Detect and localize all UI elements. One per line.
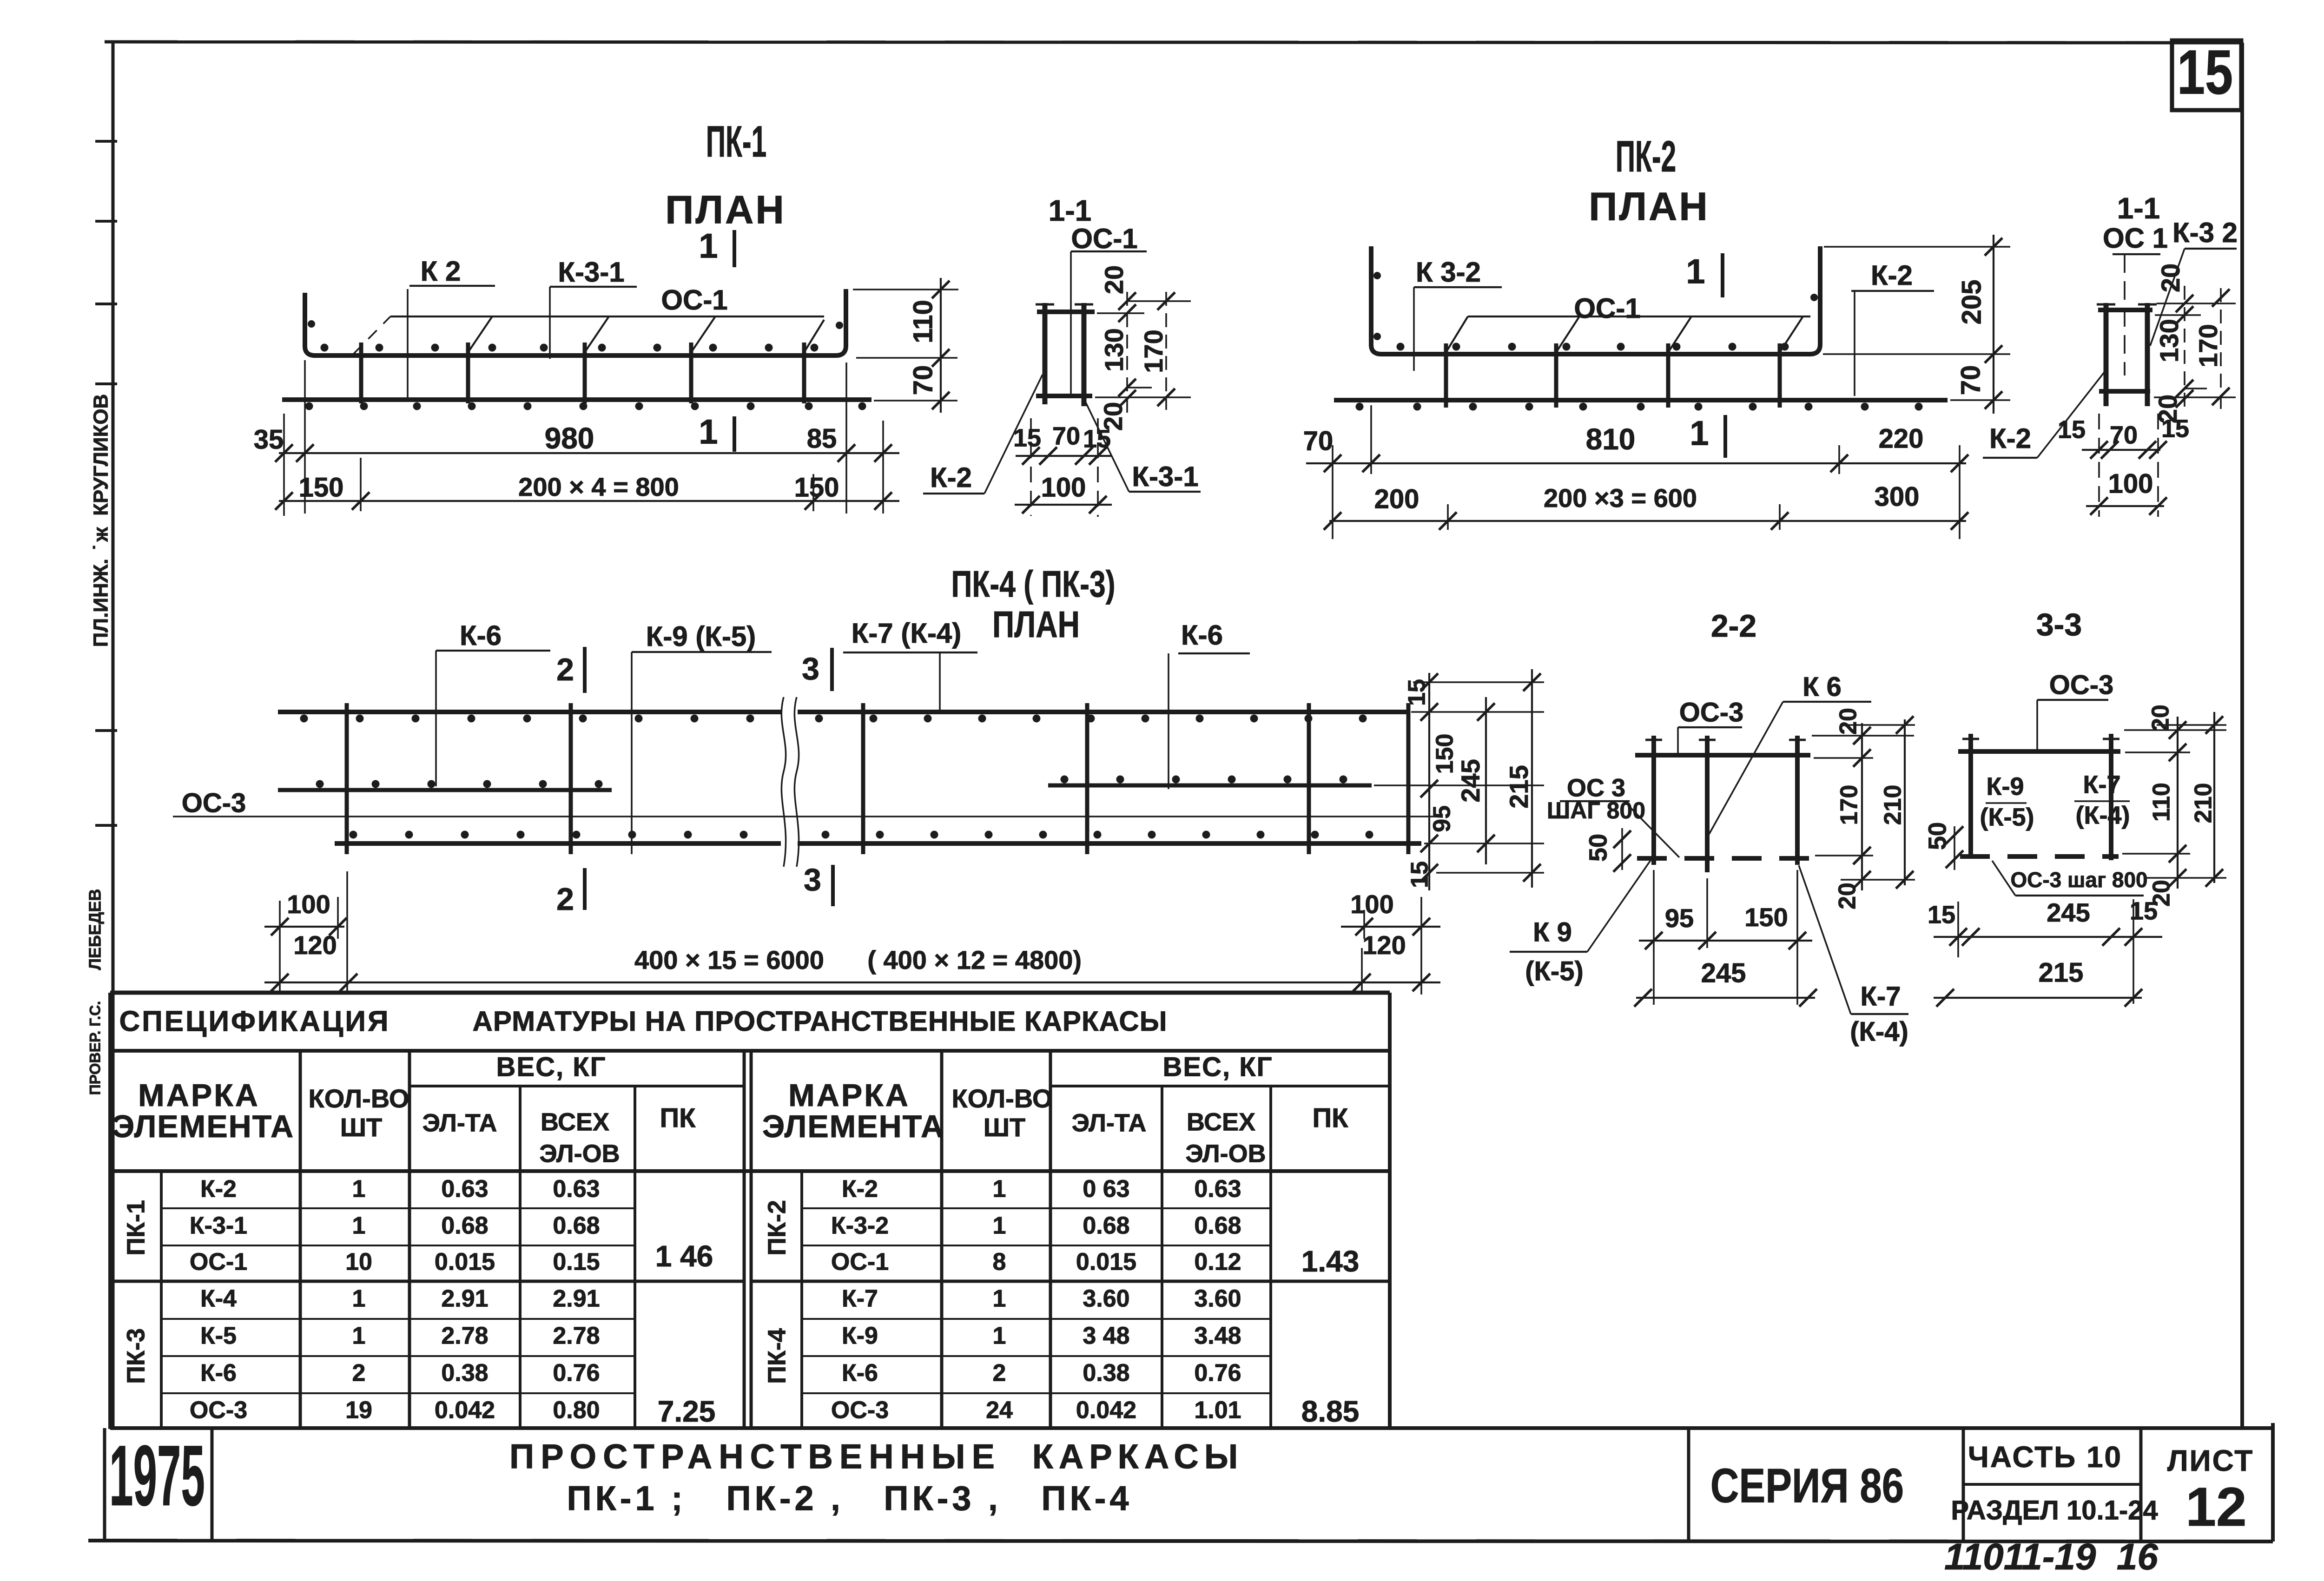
dimension 120 and overall 400x15=6000 line (PK-4 bottom) <box>264 930 1440 991</box>
dimension chain 20/110/20 (section 3-3) <box>2147 705 2186 907</box>
svg-text:150: 150 <box>1744 902 1788 932</box>
svg-text:0.80: 0.80 <box>553 1397 600 1424</box>
svg-text:3: 3 <box>802 651 819 686</box>
svg-text:810: 810 <box>1586 422 1636 456</box>
svg-text:0.63: 0.63 <box>1194 1176 1241 1203</box>
svg-text:1: 1 <box>993 1176 1006 1203</box>
svg-text:95: 95 <box>1665 903 1694 933</box>
OS-1 mesh plane outline (PK-2) <box>1446 316 1810 352</box>
svg-text:0 63: 0 63 <box>1083 1176 1129 1203</box>
section 2-2: bottom dashed bar OS-3 <box>1637 856 1812 861</box>
dimension line 150|200x4=800|150 (PK-1) <box>275 472 899 510</box>
svg-text:К-3-1: К-3-1 <box>1132 461 1198 492</box>
extension lines (section 2-2 dims) <box>1812 725 1915 880</box>
extension lines (section 2-2 bottom dims) <box>1654 870 1797 1005</box>
svg-text:2.78: 2.78 <box>553 1323 600 1350</box>
svg-text:200 ×3 = 600: 200 ×3 = 600 <box>1544 483 1697 513</box>
svg-text:3: 3 <box>804 862 821 897</box>
table column lines (left half) <box>161 1051 751 1429</box>
svg-text:ОС-1: ОС-1 <box>1574 293 1640 324</box>
table column lines (right half) <box>802 1051 1390 1429</box>
svg-text:1: 1 <box>699 227 718 265</box>
svg-text:К-6: К-6 <box>200 1360 237 1387</box>
extension lines (section 1-1 right dims) <box>2154 303 2236 397</box>
bar K-3-2: upper U-bar of PK-2 with end hooks <box>1371 246 1820 354</box>
svg-text:50: 50 <box>1584 834 1612 862</box>
svg-text:0.68: 0.68 <box>553 1212 600 1239</box>
section 1-1 right: rebar cage rectangle <box>2097 303 2157 406</box>
specification table frame <box>110 993 1390 1429</box>
label OS-3 with leader line (PK-4) <box>173 788 1436 818</box>
svg-text:12: 12 <box>2185 1476 2246 1538</box>
section mark 1 bottom (PK-2) <box>1690 414 1725 458</box>
dimension 215 (section 3-3) <box>1934 957 2142 1007</box>
svg-text:10: 10 <box>345 1249 372 1276</box>
dimension chain 20/130/20 (section 1-1 left) <box>1098 265 1136 431</box>
OS-1 mesh plane outline (PK-1) <box>353 316 824 354</box>
svg-text:95: 95 <box>1429 805 1456 832</box>
dimension 50 (section 2-2) <box>1584 828 1631 872</box>
rebar dots on middle-right bar (PK-4) <box>1061 776 1347 784</box>
rebar dots over bottom bar (PK-4) <box>350 831 1373 839</box>
svg-text:70: 70 <box>908 365 938 395</box>
svg-text:20: 20 <box>1835 708 1862 735</box>
stirrups OS-1 crossing PK-1 bars <box>361 343 804 403</box>
svg-text:К-6: К-6 <box>460 620 502 651</box>
svg-text:15: 15 <box>2161 415 2189 442</box>
svg-text:МАРКА: МАРКА <box>138 1078 260 1113</box>
svg-text:ПРОВЕР. Г.С.: ПРОВЕР. Г.С. <box>86 1001 103 1095</box>
dimension 15|70|15 (section 1-1 left) <box>1013 422 1112 465</box>
dimension 100 (PK-4 bottom left) <box>264 889 347 935</box>
dimension 170 (section 1-1 right) <box>2193 288 2230 413</box>
svg-text:7.25: 7.25 <box>658 1395 716 1428</box>
svg-text:245: 245 <box>2047 898 2090 927</box>
svg-text:ПК: ПК <box>1312 1103 1348 1133</box>
svg-text:0.042: 0.042 <box>435 1397 495 1424</box>
svg-text:ЧАСТЬ 10: ЧАСТЬ 10 <box>1968 1440 2122 1474</box>
table headers (left half) <box>112 1052 696 1167</box>
bar K-2: lower bar of PK-2 <box>1334 398 1948 402</box>
svg-text:1.01: 1.01 <box>1194 1397 1241 1424</box>
table data rows (right half) <box>831 1176 1359 1428</box>
section 3-3: left vertical bar <box>1968 734 1973 858</box>
svg-text:К-2: К-2 <box>930 462 972 493</box>
svg-text:70: 70 <box>1955 365 1986 395</box>
label K-9 / (K-5) inside section 3-3 <box>1980 772 2034 831</box>
svg-text:15: 15 <box>1013 424 1041 452</box>
svg-text:КОЛ-ВО: КОЛ-ВО <box>952 1084 1053 1113</box>
svg-text:ВЕС, КГ: ВЕС, КГ <box>1163 1052 1273 1082</box>
svg-text:20: 20 <box>1834 883 1861 909</box>
svg-text:2.78: 2.78 <box>441 1323 488 1350</box>
table headers (right half) <box>762 1052 1348 1167</box>
svg-text:100: 100 <box>1041 472 1086 502</box>
svg-text:2.91: 2.91 <box>441 1285 488 1312</box>
svg-text:1: 1 <box>993 1323 1006 1350</box>
svg-text:1: 1 <box>699 413 718 451</box>
svg-text:ВЕС, КГ: ВЕС, КГ <box>496 1052 607 1082</box>
svg-text:300: 300 <box>1875 481 1920 512</box>
svg-text:ПК-4: ПК-4 <box>763 1328 791 1384</box>
svg-text:К-3-1: К-3-1 <box>558 257 624 288</box>
section mark 1 top (PK-2) <box>1686 252 1723 297</box>
svg-text:245: 245 <box>1701 958 1746 988</box>
label OS 1 with leader (section 1-1 right) <box>2103 223 2168 375</box>
svg-text:К-3 2: К-3 2 <box>2172 217 2238 248</box>
svg-text:210: 210 <box>1880 785 1907 825</box>
svg-text:ЭЛЕМЕНТА: ЭЛЕМЕНТА <box>112 1109 294 1144</box>
svg-text:(К-5): (К-5) <box>1980 803 2034 831</box>
left margin fold ticks <box>95 141 117 825</box>
dimension line 200|200x3=600|300 (PK-2) <box>1324 481 1968 530</box>
svg-text:ПК-1: ПК-1 <box>122 1200 150 1256</box>
rebar dots under lower bar (PK-2) <box>1356 403 1923 411</box>
svg-text:20: 20 <box>1099 265 1129 294</box>
svg-text:ПК-2: ПК-2 <box>1616 132 1677 181</box>
svg-text:0.68: 0.68 <box>441 1212 488 1239</box>
svg-text:20: 20 <box>2147 705 2174 731</box>
svg-text:35: 35 <box>254 424 284 455</box>
svg-text:1975: 1975 <box>109 1428 205 1523</box>
svg-text:85: 85 <box>807 423 837 454</box>
section 1-1 left: rebar cage rectangle <box>1036 303 1095 406</box>
table row lines <box>110 1208 1390 1393</box>
svg-text:К-2: К-2 <box>1871 260 1913 291</box>
svg-text:ОС-3: ОС-3 <box>182 788 246 818</box>
svg-text:3.48: 3.48 <box>1194 1323 1241 1350</box>
svg-text:11011-19 16: 11011-19 16 <box>1944 1536 2158 1577</box>
svg-text:1: 1 <box>352 1212 366 1239</box>
svg-text:0.63: 0.63 <box>553 1176 600 1203</box>
svg-text:150: 150 <box>1432 734 1459 774</box>
label K-3-1 with leader (PK-1) <box>550 257 637 359</box>
svg-text:200: 200 <box>1374 484 1419 514</box>
label K 3-2 with leader (PK-2) <box>1414 257 1502 371</box>
svg-text:ШАГ 800: ШАГ 800 <box>1547 797 1645 823</box>
extension lines (PK-4 bottom dims) <box>280 871 1421 995</box>
svg-text:ОС-3: ОС-3 <box>831 1397 889 1424</box>
dimension 15|70|15 (section 1-1 right) <box>2058 415 2189 459</box>
label OS-1 with leader (section 1-1 left) <box>1071 223 1147 394</box>
svg-text:ОС-1: ОС-1 <box>1071 223 1137 254</box>
svg-text:400 × 15 = 6000 ( 400 × 1: 400 × 15 = 6000 ( 400 × 12 = 4800) <box>634 945 1082 975</box>
svg-text:ЛЕБЕДЕВ: ЛЕБЕДЕВ <box>86 889 105 970</box>
section 3-3: right vertical bar <box>2109 734 2113 860</box>
svg-text:ПЛАН: ПЛАН <box>665 188 786 232</box>
svg-text:1: 1 <box>352 1176 366 1203</box>
label K-7 (K-4) with leader (section 2-2) <box>1799 865 1908 1047</box>
section mark 1 bottom (PK-1) <box>699 413 734 452</box>
svg-text:ПРОСТРАНСТВЕННЫЕ: ПРОСТРАНСТВЕННЫЕ <box>509 1437 1001 1476</box>
label K-2 with leader to section 1-1 <box>923 375 1043 494</box>
svg-text:0.042: 0.042 <box>1076 1397 1136 1424</box>
svg-text:15: 15 <box>1928 901 1955 929</box>
label K-2 with leader to section 1-1 right <box>1983 372 2105 458</box>
svg-text:70: 70 <box>1052 422 1080 450</box>
section 3-3: top bar <box>1958 749 2120 754</box>
svg-text:70: 70 <box>1303 426 1334 456</box>
dimension 170 (section 1-1 left) <box>1139 292 1175 410</box>
svg-text:980: 980 <box>545 422 594 455</box>
svg-text:19: 19 <box>345 1397 372 1424</box>
svg-text:К 9: К 9 <box>1533 917 1572 947</box>
label K-2 with leader (PK-2 right) <box>1851 260 1934 396</box>
label K 6 with leader (section 2-2) <box>1709 672 1871 834</box>
svg-text:170: 170 <box>1836 785 1863 825</box>
svg-text:ЭЛ-ТА: ЭЛ-ТА <box>423 1109 497 1137</box>
svg-text:КАРКАСЫ: КАРКАСЫ <box>1032 1437 1244 1476</box>
left margin signature ПЛ.ИНЖ КРУГЛИКОВ <box>90 394 112 647</box>
section mark 1 top (PK-1) <box>699 227 734 267</box>
svg-text:ПК: ПК <box>660 1103 696 1133</box>
svg-text:К-2: К-2 <box>842 1176 878 1203</box>
svg-text:220: 220 <box>1879 423 1924 454</box>
label K-3 2 with leader (section 1-1 right) <box>2150 217 2238 346</box>
dimension 15|245|15 (section 3-3) <box>1928 897 2162 946</box>
svg-text:15: 15 <box>2058 415 2086 443</box>
table data rows (left half) <box>190 1176 715 1428</box>
label K-6 with leader (PK-4 right) <box>1169 619 1250 789</box>
svg-text:ОС-3: ОС-3 <box>1679 697 1744 727</box>
bar K-2: lower bar of PK-1 <box>282 397 871 402</box>
svg-text:К-9 (К-5): К-9 (К-5) <box>646 621 756 652</box>
sheet number box 15 <box>2172 37 2241 110</box>
svg-text:ПК-3: ПК-3 <box>122 1328 150 1384</box>
svg-text:170: 170 <box>2193 324 2223 367</box>
svg-text:(К-5): (К-5) <box>1525 956 1584 986</box>
svg-text:ПК-4 ( ПК-3): ПК-4 ( ПК-3) <box>951 564 1115 605</box>
svg-text:200 × 4 = 800: 200 × 4 = 800 <box>518 472 679 501</box>
bar K-6 middle right segment (PK-4) <box>1048 784 1372 788</box>
svg-text:1: 1 <box>993 1285 1006 1312</box>
svg-text:205: 205 <box>1956 280 1987 325</box>
bar K-9(K-5): bottom bar of PK-4 (with break) <box>335 841 1421 846</box>
svg-text:1: 1 <box>993 1212 1006 1239</box>
svg-text:2: 2 <box>556 882 574 917</box>
svg-text:1 46: 1 46 <box>655 1239 713 1273</box>
section mark 3 top <box>802 648 832 691</box>
extension lines (section 3-3 bottom dims) <box>1958 899 2133 1004</box>
svg-text:К-9: К-9 <box>1987 772 2024 800</box>
svg-text:210: 210 <box>2190 783 2217 823</box>
svg-text:ЭЛ-ОВ: ЭЛ-ОВ <box>539 1140 620 1167</box>
svg-text:К-2: К-2 <box>200 1176 237 1203</box>
svg-text:0.015: 0.015 <box>1076 1249 1136 1276</box>
svg-text:ВСЕХ: ВСЕХ <box>541 1108 609 1136</box>
svg-text:0.68: 0.68 <box>1083 1212 1129 1239</box>
svg-text:К-7: К-7 <box>842 1285 878 1312</box>
svg-text:215: 215 <box>1504 765 1533 808</box>
svg-text:15: 15 <box>1406 861 1433 888</box>
section mark 2 bottom <box>556 868 585 917</box>
dimension 50 (section 3-3) <box>1923 822 1963 870</box>
svg-text:МАРКА: МАРКА <box>788 1078 910 1113</box>
corner ticks section 2-2 <box>1645 739 1806 741</box>
dimension chain 20/170/20 (section 2-2) <box>1834 708 1871 909</box>
dimension 245 (section 2-2) <box>1634 958 1817 1007</box>
vertical dimension 215 (PK-4 right) <box>1504 669 1541 888</box>
svg-text:ШТ: ШТ <box>984 1113 1025 1142</box>
svg-text:2-2: 2-2 <box>1711 608 1756 644</box>
svg-text:1.43: 1.43 <box>1301 1245 1360 1278</box>
dimension 100 (section 1-1 right) <box>2086 414 2167 517</box>
svg-text:110: 110 <box>2148 783 2175 822</box>
dimension line 35|980|85 (PK-1) <box>254 422 899 462</box>
dimension 100 (section 1-1 left) <box>1015 418 1112 517</box>
label K 9 (K-5) with leader (section 2-2) <box>1510 860 1651 986</box>
svg-text:ЭЛ-ТА: ЭЛ-ТА <box>1072 1109 1147 1137</box>
section 2-2: left vertical bar <box>1651 736 1656 865</box>
dimension 210 (section 2-2) <box>1880 716 1914 889</box>
break (zigzag) lines in PK-4 plan <box>781 697 799 867</box>
svg-text:100: 100 <box>287 889 330 919</box>
svg-text:К-5: К-5 <box>200 1323 237 1350</box>
svg-text:ОС-3 шаг 800: ОС-3 шаг 800 <box>2010 868 2147 892</box>
svg-text:К-2: К-2 <box>1989 423 2031 454</box>
svg-text:ЭЛ-ОВ: ЭЛ-ОВ <box>1185 1140 1266 1167</box>
dimension 95|150 (section 2-2) <box>1639 902 1812 949</box>
rebar dots on upper bar (PK-1) <box>321 344 819 352</box>
svg-text:К-6: К-6 <box>1181 619 1223 651</box>
svg-text:К-3-2: К-3-2 <box>831 1212 889 1239</box>
section 3-3: bottom dashed bar OS-3 <box>1960 854 2119 859</box>
svg-text:ОС-1: ОС-1 <box>831 1249 889 1276</box>
dimension 210 (section 3-3) <box>2190 712 2223 887</box>
label OS-3 with leader (section 3-3) <box>2037 670 2113 749</box>
svg-text:0.015: 0.015 <box>435 1249 495 1276</box>
extension lines (section 3-3 dims) <box>2122 725 2226 878</box>
svg-text:ПЛАН: ПЛАН <box>992 604 1080 646</box>
svg-text:0.76: 0.76 <box>553 1360 600 1387</box>
dimension line 70|810|220 (PK-2) <box>1303 422 1968 472</box>
svg-text:24: 24 <box>986 1397 1013 1424</box>
section 2-2: top bar <box>1635 753 1810 758</box>
svg-text:СПЕЦИФИКАЦИЯ: СПЕЦИФИКАЦИЯ <box>119 1005 390 1037</box>
svg-text:ПК-2: ПК-2 <box>763 1200 791 1256</box>
svg-text:ПК-1 ; ПК-2 , ПК-3 , ПК-: ПК-1 ; ПК-2 , ПК-3 , ПК-4 <box>567 1479 1132 1518</box>
svg-text:130: 130 <box>2154 319 2184 362</box>
svg-text:15: 15 <box>2177 37 2233 107</box>
table caption SPECIFIKACIJA ARMATURY <box>119 1005 1167 1037</box>
svg-text:0.68: 0.68 <box>1194 1212 1241 1239</box>
label K-7 (K-4) with leader <box>843 618 977 710</box>
svg-text:2: 2 <box>352 1360 366 1387</box>
svg-text:СЕРИЯ 86: СЕРИЯ 86 <box>1710 1459 1904 1513</box>
svg-text:К-7 (К-4): К-7 (К-4) <box>852 618 962 649</box>
svg-text:100: 100 <box>1350 889 1393 919</box>
svg-text:ШТ: ШТ <box>340 1113 382 1142</box>
label OS-3 shag 800 with leader (section 3-3) <box>1992 861 2148 896</box>
bar K-6 middle left segment (PK-4) <box>278 788 612 792</box>
svg-text:1: 1 <box>352 1285 366 1312</box>
svg-text:К-7: К-7 <box>1861 981 1901 1011</box>
section mark 3 bottom <box>804 862 833 906</box>
label OS-3 with leader (section 2-2) <box>1678 697 1743 757</box>
svg-text:(К-4): (К-4) <box>2076 801 2130 829</box>
year box 1975 <box>105 1428 212 1541</box>
series cell <box>1689 1428 1904 1541</box>
svg-text:ОС-3: ОС-3 <box>190 1397 247 1424</box>
svg-text:ПЛ.ИНЖ. ̇ ж КРУГЛИКОВ: ПЛ.ИНЖ. ̇ ж КРУГЛИКОВ <box>90 394 112 647</box>
svg-text:ПЛАН: ПЛАН <box>1589 184 1710 229</box>
svg-text:К-3-1: К-3-1 <box>190 1212 247 1239</box>
label K-3-1 with leader (section 1-1 left) <box>1085 401 1201 492</box>
svg-text:110: 110 <box>908 300 938 343</box>
svg-text:1: 1 <box>1686 252 1705 291</box>
svg-text:170: 170 <box>1139 329 1168 373</box>
svg-text:0.76: 0.76 <box>1194 1360 1241 1387</box>
sheet cell list 12 <box>2141 1428 2254 1541</box>
svg-text:2.91: 2.91 <box>553 1285 600 1312</box>
svg-text:К-7: К-7 <box>2083 771 2121 798</box>
svg-text:ВСЕХ: ВСЕХ <box>1187 1108 1255 1136</box>
svg-text:К 2: К 2 <box>421 256 461 287</box>
rebar dots under top bar (PK-4) <box>300 715 1367 723</box>
vertical dimension 245 (PK-4 right) <box>1456 697 1495 864</box>
extension lines (section 1-1 left dims) <box>1095 301 1191 397</box>
svg-text:К 3-2: К 3-2 <box>1416 257 1481 288</box>
svg-text:2: 2 <box>556 652 574 687</box>
vertical dimension 110/70 right of PK-1 <box>853 278 958 413</box>
stirrups OS-1 crossing PK-2 bars <box>1446 343 1780 408</box>
title block frame <box>88 1423 2273 1541</box>
svg-text:ПК-1: ПК-1 <box>706 117 767 166</box>
svg-text:2: 2 <box>993 1360 1006 1387</box>
svg-text:К-4: К-4 <box>200 1285 237 1312</box>
extension lines (PK-4 right dims) <box>1374 682 1544 873</box>
rebar dots on middle-left bar (PK-4) <box>316 780 603 788</box>
svg-text:ОС 1: ОС 1 <box>2103 223 2168 254</box>
svg-text:ЛИСТ: ЛИСТ <box>2167 1444 2254 1477</box>
corner ticks section 3-3 <box>1962 738 2119 740</box>
svg-text:0.38: 0.38 <box>1083 1360 1129 1387</box>
label K-6 with leader (PK-4 left) <box>436 620 550 786</box>
svg-text:ОС-3: ОС-3 <box>2049 670 2114 700</box>
section 2-2: middle vertical bar K-6 <box>1705 736 1710 872</box>
svg-text:РАЗДЕЛ 10.1-24: РАЗДЕЛ 10.1-24 <box>1951 1495 2158 1525</box>
svg-text:8.85: 8.85 <box>1301 1395 1360 1428</box>
bar K-7(K-4): top bar of PK-4 (with break) <box>278 710 1408 714</box>
rebar dots on upper bar (PK-2) <box>1397 343 1789 351</box>
label K-9 (K-5) with leader <box>632 621 772 854</box>
svg-text:1: 1 <box>1690 414 1709 453</box>
svg-text:215: 215 <box>2039 957 2084 988</box>
svg-text:3-3: 3-3 <box>2036 607 2082 642</box>
label OS 3 SHAG 800 with leader (section 2-2) <box>1547 774 1679 857</box>
svg-text:100: 100 <box>2108 468 2153 499</box>
rebar dots under lower bar (PK-1) <box>305 402 866 410</box>
svg-text:1-1: 1-1 <box>2117 191 2160 225</box>
svg-text:20: 20 <box>2156 263 2185 292</box>
svg-text:130: 130 <box>1099 328 1129 371</box>
dimension chain 20/130/20 (section 1-1 right) <box>2153 263 2193 423</box>
label K 2 with leader (PK-1) <box>408 256 495 399</box>
svg-text:0.63: 0.63 <box>441 1176 488 1203</box>
svg-text:1-1: 1-1 <box>1049 194 1092 227</box>
label K-7 / (K-4) inside section 3-3 <box>2074 771 2130 829</box>
section mark 2 top <box>556 647 585 693</box>
svg-text:(К-4): (К-4) <box>1850 1016 1908 1047</box>
svg-text:1: 1 <box>352 1323 366 1350</box>
svg-text:3.60: 3.60 <box>1083 1285 1129 1312</box>
svg-text:КОЛ-ВО: КОЛ-ВО <box>309 1084 409 1113</box>
svg-text:0.38: 0.38 <box>441 1360 488 1387</box>
svg-text:АРМАТУРЫ НА ПРОСТРАНСТВЕННЫЕ: АРМАТУРЫ НА ПРОСТРАНСТВЕННЫЕ КАРКАСЫ <box>473 1006 1168 1037</box>
svg-text:0.15: 0.15 <box>553 1249 600 1276</box>
svg-text:0.12: 0.12 <box>1194 1249 1241 1276</box>
svg-text:ЭЛЕМЕНТА: ЭЛЕМЕНТА <box>762 1109 944 1144</box>
